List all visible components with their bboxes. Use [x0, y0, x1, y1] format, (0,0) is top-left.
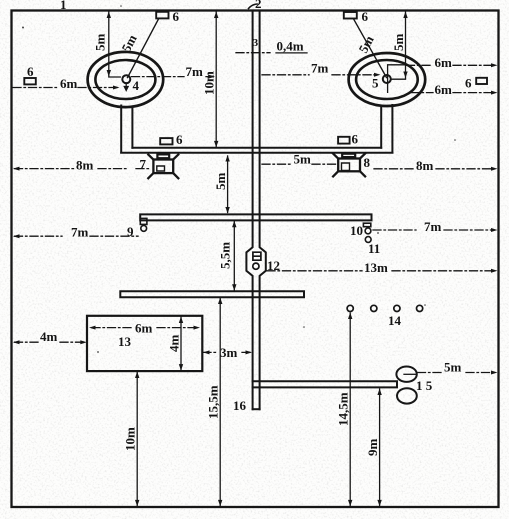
svg-text:7m: 7m: [71, 225, 89, 240]
pump unit 8 body: [333, 154, 365, 177]
dimension 5m row1 dashed: [262, 163, 336, 165]
lamp 6 top-left box: [156, 12, 168, 19]
svg-text:2: 2: [255, 0, 262, 11]
svg-text:6m: 6m: [60, 76, 78, 91]
svg-text:8: 8: [364, 155, 371, 170]
chamber 12 valve box: [253, 252, 261, 260]
dimension 4m building vertical: [179, 317, 183, 371]
well 5 center circle: [383, 75, 391, 83]
svg-text:14,5m: 14,5m: [336, 392, 351, 426]
svg-text:4: 4: [133, 78, 140, 93]
svg-text:4m: 4m: [40, 329, 58, 344]
dimension 10m vertical lower: [135, 372, 139, 507]
cross trench row 2: [140, 214, 371, 220]
svg-text:5m: 5m: [294, 152, 312, 167]
svg-text:6: 6: [362, 9, 369, 24]
lamp 6 mid-left box: [160, 138, 172, 144]
lamp 6 far-left box: [24, 78, 36, 84]
dimension 15.5m vertical: [218, 298, 222, 507]
ring tank 4 outer ellipse: [88, 52, 164, 107]
svg-text:16: 16: [233, 398, 247, 413]
trench 16 bottom cap: [253, 408, 260, 410]
ring tank 5 outer ellipse: [349, 53, 426, 106]
svg-text:10m: 10m: [202, 71, 217, 95]
lamp 6 mid-right box: [338, 137, 350, 144]
svg-text:13m: 13m: [364, 260, 388, 275]
dimension 8m right dashed: [374, 168, 494, 170]
dimension 5m bottom right dashed: [418, 372, 495, 374]
lamp 6 top-right box: [344, 12, 357, 19]
tank 15 lower ellipse: [397, 388, 417, 403]
dimension 7m right mid dashed: [373, 229, 494, 231]
svg-text:10: 10: [350, 223, 363, 238]
dimension 6m right upper dashed: [407, 64, 495, 66]
hydrant 11 circle: [365, 237, 371, 243]
svg-text:11: 11: [368, 241, 380, 256]
branch trench row 4: [253, 381, 397, 387]
svg-text:15,5m: 15,5m: [206, 385, 221, 419]
dimension 3m dashed: [203, 351, 250, 353]
cross trench row 3: [120, 291, 304, 297]
pump unit 7 body: [148, 155, 178, 179]
dimension 0,4m dashed: [236, 52, 270, 54]
dimension 5m vertical left: [107, 12, 121, 78]
svg-text:5m: 5m: [391, 34, 406, 52]
svg-text:6m: 6m: [435, 82, 453, 97]
hydrant 10 box: [363, 223, 370, 227]
hydrant 9 box: [140, 218, 147, 224]
posts 14 circles: [347, 305, 423, 311]
svg-text:10m: 10m: [123, 427, 138, 451]
dimension 6m right lower dashed: [411, 92, 494, 94]
dimension 5m vertical mid: [225, 155, 229, 214]
pump unit 7 lid: [157, 154, 169, 158]
tick at pipe top: [249, 4, 258, 9]
svg-text:7m: 7m: [186, 64, 204, 79]
svg-text:7m: 7m: [311, 61, 329, 76]
svg-text:6: 6: [352, 132, 359, 147]
stem pipe from tank 4: [121, 106, 132, 153]
dimension 7m right upper dashed: [262, 74, 377, 76]
svg-text:5m: 5m: [213, 173, 228, 191]
svg-text:6: 6: [176, 132, 183, 147]
svg-text:1 5: 1 5: [416, 378, 433, 393]
main trench line 2 (left wall): [246, 11, 252, 409]
dimension 4m far left dashed: [15, 341, 86, 343]
stem pipe from tank 5: [381, 105, 392, 153]
lamp 6 far-right box: [476, 78, 487, 84]
dimension 13m dashed: [267, 270, 494, 272]
svg-text:8m: 8m: [416, 158, 434, 173]
dimension 5m vertical right: [403, 12, 407, 79]
speckles: [22, 5, 456, 353]
svg-text:9m: 9m: [365, 439, 380, 457]
tank 15 feed line: [404, 373, 416, 375]
svg-text:5: 5: [372, 76, 379, 91]
svg-text:4m: 4m: [167, 335, 182, 353]
cross trench row 1: [121, 148, 392, 153]
dimension 10m vertical upper: [214, 12, 218, 148]
leader line from lamp 6 to well 5: [354, 19, 387, 78]
svg-text:6: 6: [465, 76, 472, 91]
svg-text:5m: 5m: [93, 34, 108, 52]
svg-text:5,5m: 5,5m: [218, 242, 233, 269]
hydrant 10 circle: [365, 228, 371, 234]
svg-text:3m: 3m: [220, 345, 238, 360]
svg-text:6m: 6m: [135, 321, 153, 336]
dimension 9m vertical: [377, 389, 381, 507]
svg-text:8m: 8m: [76, 158, 94, 173]
ring tank 5 inner ellipse: [356, 60, 418, 99]
ring tank 4 inner ellipse: [95, 60, 155, 99]
svg-text:6: 6: [173, 9, 180, 24]
svg-text:14: 14: [388, 313, 402, 328]
dimension 7m left mid dashed: [15, 235, 139, 237]
dimension 6m building dashed: [92, 327, 196, 329]
dimension 6m far left dashed: [13, 87, 117, 89]
building 13: [87, 316, 202, 371]
svg-text:13: 13: [118, 334, 132, 349]
svg-text:3: 3: [253, 37, 259, 49]
dimension 8m left dashed: [15, 168, 151, 170]
svg-text:7m: 7m: [424, 219, 442, 234]
hydrant 9 circle: [141, 226, 147, 232]
dimension 7m left upper dashed: [132, 76, 214, 78]
leader line from lamp 6 to well 4: [128, 19, 159, 78]
svg-text:5m: 5m: [444, 360, 462, 375]
dimension 5.5m vertical: [232, 221, 236, 291]
well 4 center circle: [122, 75, 130, 83]
pump unit 8 lid: [342, 154, 355, 157]
svg-text:1: 1: [60, 0, 67, 12]
svg-text:0,4m: 0,4m: [277, 39, 304, 54]
main trench line 2 (right wall): [260, 11, 266, 409]
chamber 12 circle: [253, 263, 259, 269]
svg-text:6m: 6m: [435, 55, 453, 70]
well 5 reference bracket: [388, 65, 406, 93]
tank 15 upper ellipse: [396, 367, 416, 382]
svg-text:6: 6: [27, 64, 34, 79]
dimension 14.5m vertical: [348, 313, 352, 507]
